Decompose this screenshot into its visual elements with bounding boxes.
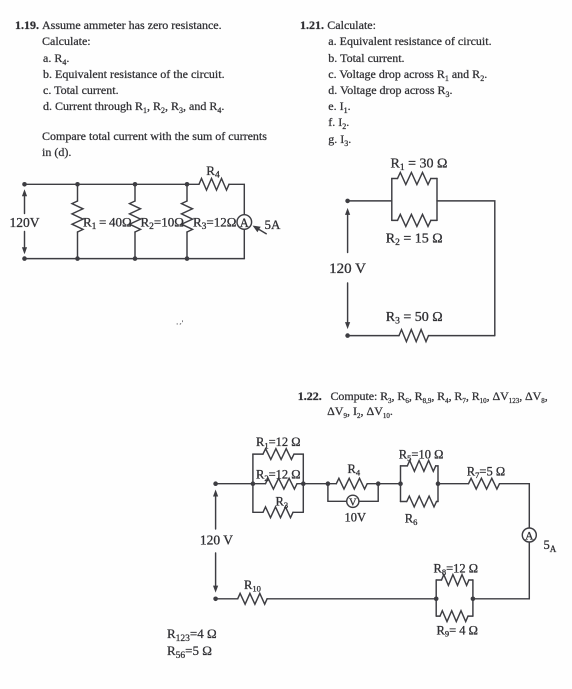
resistor R3 (1.22) bbox=[263, 507, 293, 518]
resistor R10 bbox=[238, 593, 267, 604]
wire: branch R3 vertical leads bbox=[186, 184, 188, 258]
wire: triple box to R4 section bbox=[303, 483, 328, 485]
svg-text:R4: R4 bbox=[206, 163, 220, 181]
node: 1.22 top-left corner bbox=[213, 481, 218, 486]
node: R5/R6 right junction bbox=[436, 481, 441, 486]
svg-text:R6: R6 bbox=[405, 512, 418, 527]
wire: R5/R6 box to R7 bbox=[438, 483, 469, 485]
svg-text:R5=10 Ω: R5=10 Ω bbox=[399, 448, 444, 463]
svg-text:120 V: 120 V bbox=[329, 261, 366, 277]
battery/source 120 V arrow symbol (1.22) bbox=[213, 490, 218, 593]
node: 1.22 bottom-left corner bbox=[213, 597, 218, 602]
wire: 1.19 bottom rail bbox=[25, 258, 245, 260]
wire: R8/R9 box to R10 bbox=[267, 598, 436, 600]
svg-text:5A: 5A bbox=[544, 538, 557, 554]
wire: R2 branch leads (1.22) bbox=[253, 483, 303, 485]
svg-text:A: A bbox=[525, 531, 534, 543]
wire: R2 branch leads bbox=[392, 219, 437, 221]
wire: R4 to right corner, right rail down to ammeter bbox=[229, 184, 244, 215]
node: bottom of R1 bbox=[75, 256, 80, 261]
resistor R3 bbox=[182, 201, 193, 232]
node: 1.19 bottom-left corner bbox=[22, 256, 27, 261]
battery/source 120V arrow symbol bbox=[22, 189, 27, 254]
node: 1.21 top-left bbox=[345, 199, 350, 204]
svg-text:R2=12 Ω: R2=12 Ω bbox=[256, 468, 301, 483]
wire: R1 branch leads bbox=[392, 178, 437, 180]
svg-text:R1 = 40Ω: R1 = 40Ω bbox=[83, 215, 132, 233]
resistor R8 bbox=[442, 575, 469, 586]
resistor R1 (1.22) bbox=[263, 449, 294, 460]
wire: R9 branch leads bbox=[436, 615, 473, 617]
wire: R1 branch leads (1.22) bbox=[253, 453, 303, 455]
wire: ammeter to bottom-right corner bbox=[473, 542, 529, 599]
resistor R6 bbox=[407, 496, 437, 507]
resistor R4 (1.22) bbox=[336, 478, 367, 489]
svg-text:R3: R3 bbox=[276, 495, 289, 510]
voltmeter V with 10V bbox=[347, 495, 359, 508]
resistor R2 (1.21) bbox=[398, 214, 431, 226]
svg-text:120 V: 120 V bbox=[200, 532, 233, 547]
wire: R4 leads bbox=[328, 483, 378, 485]
wire: R4 section to R5/R6 box bbox=[378, 483, 400, 485]
svg-text:R7=5 Ω: R7=5 Ω bbox=[467, 465, 505, 480]
label 5A ammeter reading with pointer arrow bbox=[253, 217, 281, 234]
svg-text:R3 = 50 Ω: R3 = 50 Ω bbox=[386, 310, 443, 327]
wire: triple parallel box rails R1 R2 R3 bbox=[253, 454, 303, 512]
svg-text:V: V bbox=[349, 497, 357, 508]
node: R8/R9 right junction bbox=[471, 597, 476, 602]
svg-text:R1=12 Ω: R1=12 Ω bbox=[256, 435, 301, 450]
wire: R8 branch leads bbox=[436, 579, 473, 581]
svg-text:R8=12 Ω: R8=12 Ω bbox=[434, 562, 479, 577]
wire: 1.22 left top lead bbox=[216, 483, 253, 485]
wire: R3 branch leads (1.22) bbox=[253, 511, 303, 513]
wire: R10 to bottom-left corner bbox=[216, 598, 238, 600]
node: top of R1 bbox=[75, 182, 80, 187]
wire: branch R1 vertical leads bbox=[77, 184, 79, 258]
node: R4 section right junction bbox=[376, 481, 381, 486]
ammeter A (1.22) bbox=[522, 528, 536, 543]
wire: 1.19 top rail bbox=[25, 183, 200, 185]
svg-text:R3=12Ω: R3=12Ω bbox=[193, 215, 236, 233]
node: triple box left junction bbox=[251, 481, 256, 486]
wire: branch R2 vertical leads bbox=[134, 184, 136, 258]
wire: voltmeter branch bbox=[328, 500, 378, 502]
node: 1.21 bottom-left bbox=[345, 333, 350, 338]
resistor R3 (1.21) bbox=[399, 330, 429, 342]
resistor R2 bbox=[130, 201, 141, 232]
wire: 1.21 top rail left segment bbox=[348, 200, 392, 202]
svg-text:R2 = 15 Ω: R2 = 15 Ω bbox=[386, 232, 443, 249]
svg-text:5A: 5A bbox=[265, 217, 282, 232]
wire: 1.21 top rail right segment and right rail bbox=[437, 201, 495, 336]
wire: 1.21 bottom rail segments bbox=[348, 335, 495, 337]
node: top of R2 bbox=[133, 182, 138, 187]
wire: R6 branch leads bbox=[401, 501, 439, 503]
wire: ammeter to bottom-right corner bbox=[243, 229, 245, 258]
resistor R5 bbox=[407, 461, 435, 472]
wire: parallel box rails (1.21) bbox=[392, 179, 437, 221]
wire: R7 to right corner, down to ammeter bbox=[500, 484, 530, 528]
node: R5/R6 left junction bbox=[398, 481, 403, 486]
resistor R7 bbox=[469, 478, 500, 489]
resistor R4 bbox=[199, 179, 229, 191]
svg-text:A: A bbox=[240, 216, 249, 230]
resistor R9 bbox=[440, 611, 468, 622]
svg-text:R10: R10 bbox=[244, 578, 261, 593]
node: bottom of R3 bbox=[185, 256, 190, 261]
svg-text:R4: R4 bbox=[348, 462, 361, 477]
svg-text:R9= 4 Ω: R9= 4 Ω bbox=[437, 623, 478, 638]
node: R4 section left junction bbox=[326, 481, 331, 486]
svg-text:10V: 10V bbox=[345, 511, 367, 525]
battery/source 120 V arrow symbol (1.21) bbox=[345, 208, 350, 329]
svg-text:R1 = 30 Ω: R1 = 30 Ω bbox=[391, 156, 448, 173]
node: bottom of R2 bbox=[133, 256, 138, 261]
svg-text:120V: 120V bbox=[10, 215, 40, 230]
svg-text:R2=10Ω: R2=10Ω bbox=[141, 215, 184, 233]
node: top of R3 bbox=[185, 182, 190, 187]
ammeter A (1.19) bbox=[237, 215, 252, 230]
wire: R5/R6 box rails bbox=[401, 466, 439, 502]
node: R8/R9 left junction bbox=[434, 597, 439, 602]
resistor R2 (1.22) bbox=[266, 478, 298, 489]
resistor R1 (1.21) bbox=[398, 173, 431, 185]
wire: R8/R9 box rails bbox=[436, 580, 473, 616]
wire: R5 branch leads bbox=[401, 465, 439, 467]
resistor R1 bbox=[72, 201, 83, 232]
node: 1.19 top-left corner bbox=[22, 182, 27, 187]
node: triple box right junction bbox=[301, 481, 306, 486]
wire: R4 section rails bbox=[328, 484, 378, 502]
